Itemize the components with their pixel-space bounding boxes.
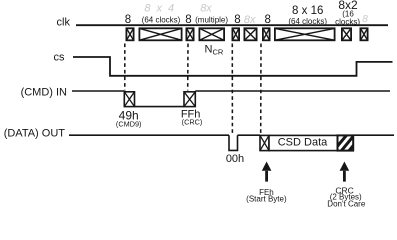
wire DATA OUT high mid [238, 134, 261, 136]
label 00h [226, 153, 244, 165]
label 8x2 [338, 0, 358, 12]
wire CMD IN high left [72, 90, 124, 92]
clk byte box 2 (8x4, 64 clocks) [139, 28, 181, 40]
DATA box CSD Data [269, 135, 338, 150]
svg-text:(CMD9): (CMD9) [116, 119, 142, 128]
CMD byte box 49h [124, 92, 134, 107]
label CRC [335, 186, 353, 196]
arrow CRC [340, 162, 350, 182]
label 8 (grey, last) [362, 14, 368, 25]
svg-text:NCR: NCR [205, 43, 224, 56]
label 49h [119, 109, 139, 123]
wire DATA OUT high left [69, 134, 229, 136]
wire CMD IN low segment [135, 106, 185, 108]
label 8x (grey, second) [244, 14, 256, 26]
label 8 x 4 (grey) [144, 3, 175, 15]
CMD byte box FFh [184, 92, 195, 107]
svg-text:8: 8 [234, 14, 240, 26]
wire cs high left [73, 57, 393, 76]
svg-text:8: 8 [362, 14, 368, 25]
label 8 (byte 3) [234, 14, 240, 26]
dashed timing line 2 [187, 44, 189, 91]
svg-text:(CMD) IN: (CMD) IN [21, 86, 67, 98]
clk signal label [57, 17, 71, 29]
svg-text:8: 8 [185, 14, 191, 26]
label (CMD9) [116, 119, 142, 128]
label (64 clocks) second [288, 17, 327, 26]
arrow FEh start byte [262, 162, 272, 182]
clk byte box 3 [186, 28, 193, 40]
clk byte box 9 (8x2, 16 clocks) [342, 28, 351, 40]
DATA box CRC hatched [331, 131, 368, 160]
svg-text:(64 clocks): (64 clocks) [142, 16, 181, 25]
dashed timing line 4 [260, 44, 262, 135]
svg-text:(DATA) OUT: (DATA) OUT [4, 127, 66, 139]
svg-text:(multiple): (multiple) [195, 16, 228, 25]
svg-text:CSD Data: CSD Data [278, 137, 328, 149]
dashed timing line 1 [124, 44, 126, 91]
label (CRC) [182, 117, 203, 126]
label (16 [342, 10, 354, 19]
label (2 Bytes) [330, 193, 362, 202]
clk byte box 5 [232, 28, 239, 40]
svg-text:8 x 4: 8 x 4 [144, 3, 175, 15]
svg-text:00h: 00h [226, 153, 244, 165]
label clocks) [335, 18, 360, 27]
svg-text:8: 8 [264, 14, 270, 26]
svg-text:8 x 16: 8 x 16 [292, 5, 323, 17]
clk byte box 1 [126, 28, 133, 40]
label 8 x 16 [292, 5, 323, 17]
DATA byte box FEh [260, 135, 269, 150]
clk byte box 7 [263, 28, 270, 40]
label FFh [181, 109, 201, 121]
clk byte box 4 (NCR) [199, 28, 224, 40]
clk byte box 8 (8x16, 64 clocks) [275, 28, 335, 40]
label (Start Byte) [246, 194, 287, 203]
label 8x (grey, multiple) [200, 3, 212, 15]
wire clk line [76, 24, 388, 26]
(CMD) IN signal label [21, 86, 67, 98]
label (64 clocks) [142, 16, 181, 25]
label FEh (start byte) [259, 188, 274, 197]
clk byte box 6 (8x grey) [244, 28, 256, 40]
label 8 (byte 2) [185, 14, 191, 26]
label 8 (byte 4) [264, 14, 270, 26]
dashed timing line 3 [231, 44, 233, 135]
(DATA) OUT signal label [4, 127, 66, 139]
svg-text:Don't Care: Don't Care [327, 200, 366, 208]
cs signal label [54, 52, 66, 64]
clk byte box 10 (8 grey) [360, 28, 367, 40]
wire DATA OUT high right [354, 134, 395, 136]
svg-text:8x: 8x [200, 3, 212, 15]
svg-text:(CRC): (CRC) [182, 117, 203, 126]
wire CMD IN high right [195, 90, 390, 92]
DATA OUT 00h low pulse [229, 135, 238, 150]
svg-text:(64 clocks): (64 clocks) [288, 17, 327, 26]
label (multiple) [195, 16, 228, 25]
label NCR [205, 43, 224, 56]
svg-text:clocks): clocks) [335, 18, 360, 27]
svg-text:clk: clk [57, 17, 71, 29]
svg-text:cs: cs [54, 52, 66, 64]
svg-text:(Start Byte): (Start Byte) [246, 194, 287, 203]
label 8 (byte 1) [125, 14, 131, 26]
svg-text:8x: 8x [244, 14, 256, 26]
label Don't Care [327, 200, 366, 209]
svg-text:8: 8 [125, 14, 131, 26]
